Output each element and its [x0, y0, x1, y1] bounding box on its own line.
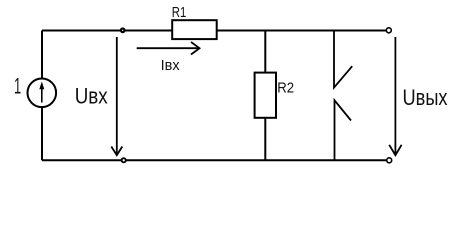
node: input bottom junction [122, 158, 126, 162]
arrow: Iвх current direction [137, 42, 200, 55]
wire: R2 branch [264, 31, 266, 161]
node: input top junction [121, 29, 125, 33]
wire: bottom rail [42, 159, 386, 161]
arrow: Uвх measurement [111, 37, 122, 155]
terminal: output bottom [387, 158, 392, 163]
current source I1 [28, 79, 57, 108]
resistor R1 [172, 20, 217, 39]
svg-text:R2: R2 [277, 81, 294, 97]
terminal: output top [386, 28, 391, 33]
spark gap bottom electrode [335, 100, 352, 160]
wire: left branch (source leads) [41, 31, 43, 161]
spark gap top electrode [334, 31, 352, 88]
resistor R2 [255, 73, 276, 118]
svg-text:Uвх: Uвх [75, 84, 108, 109]
svg-text:R1: R1 [172, 5, 187, 21]
arrow: Uвых measurement [389, 37, 401, 155]
svg-text:Iвх: Iвх [161, 57, 180, 74]
svg-text:1: 1 [14, 73, 21, 98]
wire: top rail [42, 30, 386, 32]
svg-text:Uвых: Uвых [403, 85, 448, 110]
